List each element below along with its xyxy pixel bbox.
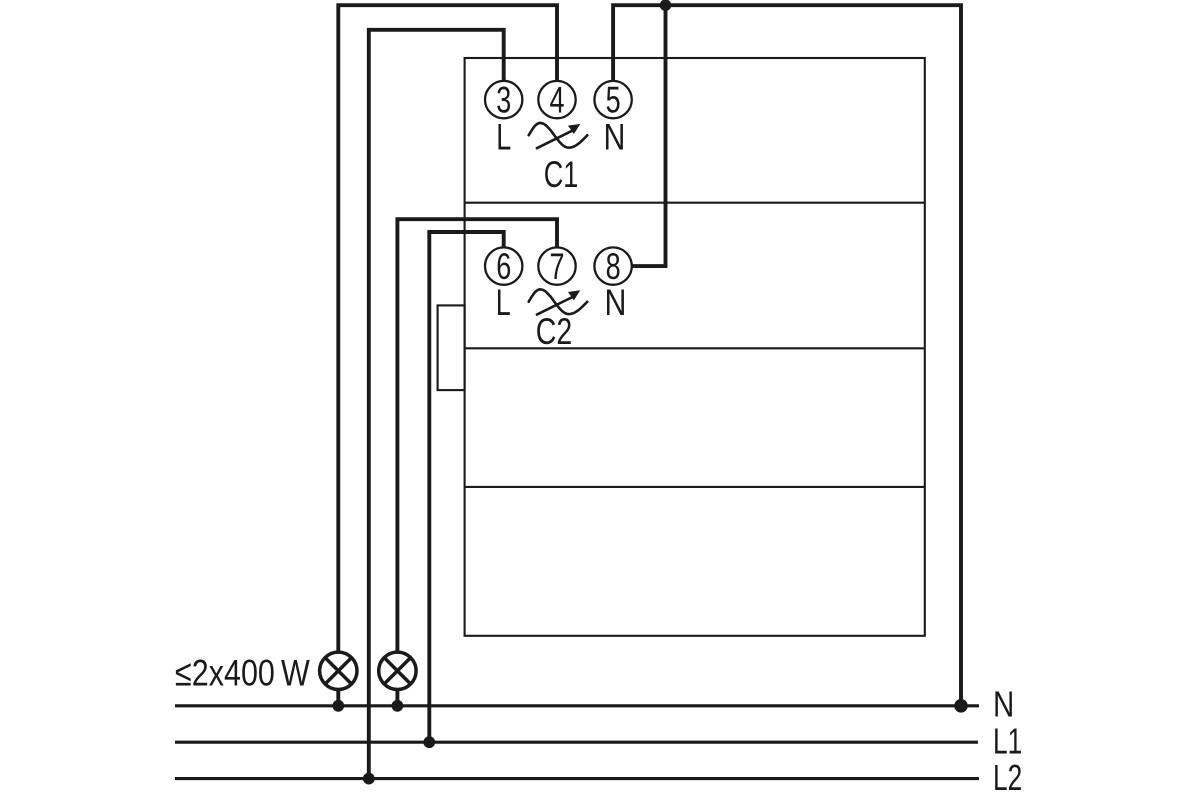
device box division line 2 [465, 347, 925, 349]
junction dot right wire on N [954, 699, 968, 713]
device box division line 3 [465, 486, 925, 488]
device box side nub rectangle [438, 305, 465, 390]
dimmer symbol C2 arrow shaft [537, 297, 573, 315]
svg-text:4: 4 [549, 79, 564, 120]
svg-text:C1: C1 [544, 154, 579, 195]
wire terminal7 to lamp E2 [397, 219, 557, 652]
terminal 8 circle [594, 247, 631, 284]
svg-text:8: 8 [606, 246, 621, 287]
terminal 7 circle [538, 247, 575, 284]
wire terminal5 to N bus right side [613, 5, 961, 706]
dimmer symbol C1 arrow shaft [537, 131, 573, 149]
dimmer symbol C1 arrow head [568, 124, 580, 134]
svg-text:L1: L1 [993, 720, 1022, 761]
wire lamp E2 to N bus [395, 690, 399, 706]
svg-text:7: 7 [549, 246, 564, 287]
lamp E2 circle [379, 652, 416, 689]
wire terminal6 to L1 bus [429, 232, 503, 742]
svg-text:N: N [993, 684, 1014, 724]
device box division line 1 [465, 202, 925, 204]
svg-text:≤2x400 W: ≤2x400 W [175, 653, 310, 694]
terminal 5 circle [594, 81, 631, 118]
wire lamp E1 to N bus [336, 690, 340, 706]
svg-text:L: L [496, 116, 511, 157]
svg-text:C2: C2 [536, 310, 572, 351]
lamp E2 cross [384, 658, 410, 684]
junction dot top branch [660, 0, 672, 11]
svg-text:3: 3 [496, 79, 511, 120]
bus line L1 [175, 741, 978, 744]
wire terminal3 to L2 bus [369, 30, 504, 779]
dimmer symbol C2 arrow head [568, 290, 580, 300]
junction dot on L2 [363, 773, 375, 785]
wire terminal4 to lamp E1 [338, 5, 557, 652]
device box outline [465, 58, 925, 636]
junction dot lamp E2 on N [392, 700, 404, 712]
wire branch to terminal8 N [632, 5, 666, 266]
dimmer symbol C2 sine wave [529, 289, 588, 314]
bus line N [175, 704, 979, 707]
svg-text:N: N [605, 282, 627, 324]
bus line L2 [175, 777, 979, 780]
junction dot on L1 [423, 736, 435, 748]
dimmer symbol C1 sine wave [529, 123, 588, 148]
terminal 6 circle [485, 247, 522, 284]
svg-text:5: 5 [606, 79, 621, 120]
terminal 4 circle [538, 81, 575, 118]
lamp E1 circle [320, 652, 357, 689]
terminal 3 circle [485, 81, 522, 118]
svg-text:N: N [604, 117, 626, 159]
lamp E1 cross [325, 658, 351, 684]
svg-text:L: L [496, 282, 511, 323]
junction dot lamp E1 on N [332, 700, 344, 712]
svg-text:L2: L2 [993, 757, 1022, 798]
